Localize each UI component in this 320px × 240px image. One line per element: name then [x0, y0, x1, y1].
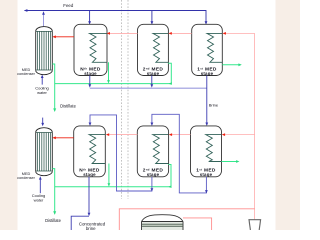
arrow Nth condensate join: [107, 80, 110, 83]
coil in Nth stage (bottom): [89, 135, 105, 164]
arrow condensate return (top): [238, 63, 241, 66]
arrow brine 2nd down (bottom): [151, 188, 154, 191]
svg-text:condenser: condenser: [17, 72, 35, 76]
continuation dashed line right: [127, 0, 129, 199]
wire 2nd stage brine drop: [151, 76, 153, 87]
wire distillate collector (bottom row): [55, 186, 171, 188]
arrow feed into 2nd stage: [151, 21, 154, 24]
MED condenser C1 (top): [36, 27, 53, 75]
arrow 2nd condensate join (bottom): [168, 185, 171, 188]
wire external steam to 1st coil (pink): [224, 32, 255, 34]
arrow steam into 1st coil bottom: [222, 133, 225, 136]
svg-text:brine: brine: [86, 226, 96, 230]
continuation dashed line left: [121, 0, 123, 199]
wire external steam to 1st coil bottom (pink): [223, 134, 254, 136]
arrow brine into Nth stage (bottom): [89, 123, 92, 126]
wire steam 1st to 2nd coil (pink): [170, 32, 192, 34]
svg-text:stage: stage: [84, 71, 97, 76]
svg-text:stage: stage: [200, 172, 213, 177]
wire 1st coil condensate out right (top): [222, 64, 240, 66]
coil in 1st stage (bottom): [206, 135, 222, 162]
svg-text:stage: stage: [201, 71, 214, 76]
svg-text:water: water: [37, 90, 47, 95]
wire steam 1st to 2nd coil bottom (pink): [170, 134, 190, 136]
wire steam 2nd to Nth coil bottom (pink): [108, 134, 138, 136]
wire vapour Nth to C2 (red): [54, 137, 74, 139]
arrow Nth brine join: [88, 84, 91, 87]
right margin band: [276, 0, 301, 230]
1st MED stage vessel (top row): [192, 24, 223, 75]
wire brine cascade 2nd to Nth (bottom): [90, 115, 152, 191]
Nth MED stage vessel (top row): [74, 24, 107, 75]
arrow 2nd brine join: [150, 84, 153, 87]
2nd MED stage vessel (top row): [138, 24, 169, 75]
wire feed header: [25, 11, 207, 24]
svg-text:stage: stage: [147, 172, 160, 177]
arrow feed header left out: [24, 9, 27, 12]
arrow brine into bottom 1st stage: [205, 123, 208, 126]
Nth MED stage vessel (bottom row): [74, 126, 106, 177]
left margin band: [0, 0, 18, 230]
arrow steam into 2nd coil: [168, 32, 171, 35]
wire brine collector (top row): [90, 87, 207, 89]
arrow vapour into C2: [52, 136, 55, 139]
wire feed drop into Nth stage: [89, 11, 91, 24]
svg-text:Brine: Brine: [209, 102, 219, 107]
wire distillate collector (top row): [55, 83, 172, 85]
svg-text:water: water: [34, 197, 44, 202]
wire 2nd coil condensate down: [168, 63, 171, 83]
svg-text:Distillate: Distillate: [60, 103, 76, 108]
arrow feed into C2: [41, 123, 44, 126]
arrow distillate out (top): [53, 108, 56, 112]
svg-text:stage: stage: [83, 172, 96, 177]
wire feed into C2 top: [42, 118, 44, 125]
arrow vapour into C1: [52, 35, 55, 38]
arrow distillate out (bottom): [53, 211, 56, 215]
arrow condensate return (bottom): [236, 160, 239, 163]
wire brine transfer to bottom 1st stage: [206, 76, 208, 125]
wire Nth coil condensate down (bottom): [108, 164, 110, 186]
svg-text:stage: stage: [147, 71, 160, 76]
wire condenser outlet to feed header: [43, 14, 45, 27]
arrow Nth condensate join (bottom): [108, 183, 111, 186]
arrow steam into Nth coil: [107, 32, 110, 35]
C2 tube bundle: [36, 133, 52, 172]
arrow steam into 2nd coil bottom: [169, 133, 172, 136]
coil in 2nd stage (top): [153, 33, 168, 62]
arrow 2nd condensate join: [169, 82, 172, 85]
wire concentrated brine out: [71, 177, 89, 230]
coil in 2nd stage (bottom): [153, 135, 169, 164]
arrow cooling water into C1 bottom: [41, 75, 44, 78]
arrow steam into Nth coil bottom: [106, 133, 109, 136]
wire brine cascade 1st to 2nd (bottom): [152, 114, 207, 193]
wire tank steam line (red): [183, 218, 212, 230]
svg-text:condenser: condenser: [17, 176, 35, 180]
wire Nth stage brine drop: [89, 76, 91, 87]
coil in 1st stage (top): [207, 33, 222, 62]
wire steam supply riser (pink vertical): [254, 33, 256, 219]
svg-text:Distillate: Distillate: [45, 218, 61, 223]
wire cooling water inlet C2: [39, 179, 41, 194]
arrow brine 1st down (bottom): [205, 190, 208, 193]
wire heater loop bottom (red): [119, 209, 254, 230]
arrow concentrated brine down: [88, 213, 91, 216]
1st MED stage vessel (bottom row): [191, 126, 222, 177]
arrow cooling water into C2 bottom: [39, 176, 42, 179]
wire steam 2nd to Nth coil (pink): [108, 32, 137, 34]
C1 tube bundle: [36, 31, 52, 70]
arrow feed into 1st stage: [205, 21, 208, 24]
wire Nth coil condensate down: [108, 62, 110, 82]
wire cooling water inlet C1: [41, 77, 43, 85]
wire feed drop into 2nd stage: [151, 11, 153, 24]
wire C2 distillate out: [52, 169, 54, 214]
wire 2nd coil condensate down (bottom): [168, 165, 171, 187]
wire 1st coil condensate out right (bottom): [222, 161, 239, 163]
boiler pot: [248, 220, 261, 230]
arrow steam into 1st coil: [223, 32, 226, 35]
svg-text:Feed: Feed: [63, 3, 74, 8]
wire C1 distillate out: [52, 64, 54, 111]
MED condenser C2 (bottom): [36, 128, 53, 176]
brine tank: [142, 215, 184, 230]
arrow condenser outlet up: [42, 11, 45, 15]
wire vapour Nth stage to C1 (red): [54, 36, 75, 38]
coil in Nth stage (top): [90, 33, 107, 62]
2nd MED stage vessel (bottom row): [137, 126, 168, 177]
arrow brine into 2nd stage (bottom): [151, 123, 154, 126]
arrow feed into Nth stage: [88, 21, 91, 24]
